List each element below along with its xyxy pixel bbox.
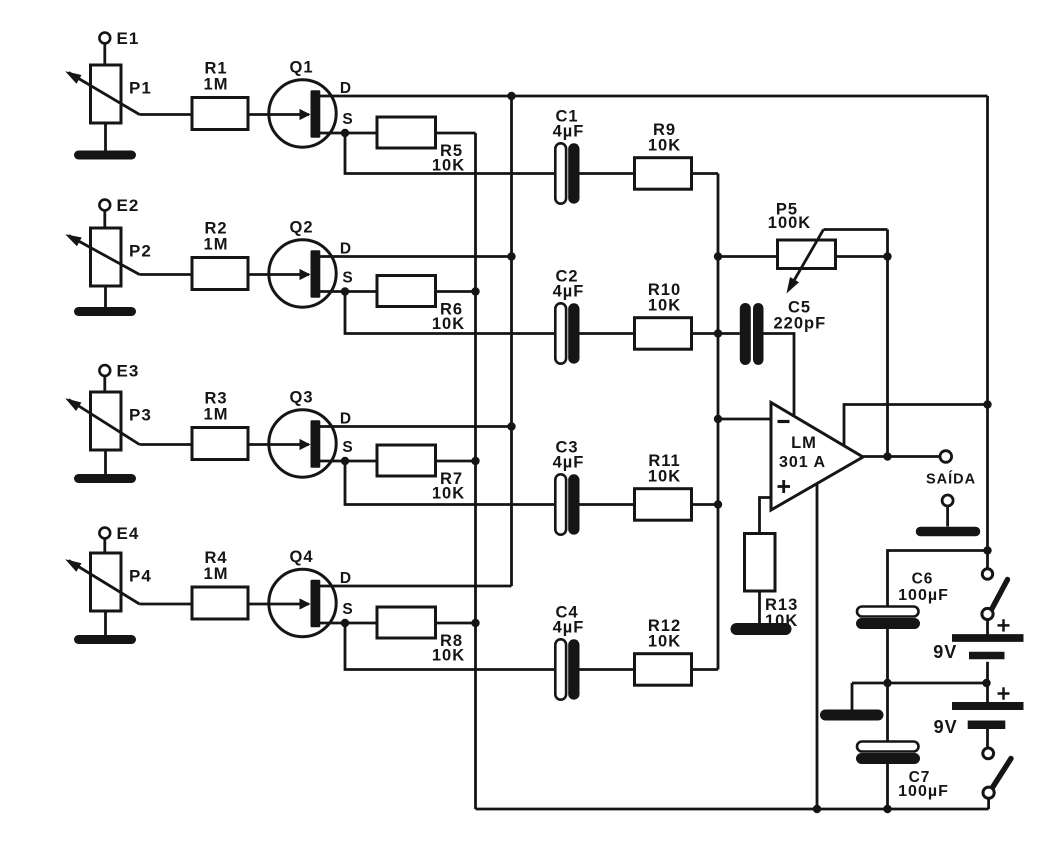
node P5 / summing bus [714, 252, 722, 260]
wire E3 to P3 [103, 376, 106, 392]
svg-text:4µF: 4µF [553, 454, 585, 472]
resistor R1 1M [192, 60, 248, 130]
svg-text:10K: 10K [648, 297, 681, 315]
svg-text:4µF: 4µF [553, 283, 585, 301]
switch S1 [982, 569, 1008, 620]
wire op-amp non-inverting input to R13 [760, 498, 772, 534]
node Q3 drain / drain bus [507, 422, 515, 430]
wire Q3 drain to drain bus [319, 425, 512, 428]
node V+ rail / op-amp supply [983, 400, 991, 408]
wire R7 to V- bus [436, 460, 476, 463]
svg-text:P1: P1 [129, 79, 152, 98]
battery B2 9V [934, 687, 1024, 737]
wire S1 to battery B1 [986, 621, 989, 635]
wire R13 to ground [758, 591, 761, 624]
wire R6 to V- bus [436, 290, 476, 293]
resistor R3 1M [192, 390, 248, 460]
svg-text:D: D [340, 80, 352, 97]
transistor Q4 (JFET) [269, 548, 354, 637]
terminal E3 [99, 362, 139, 381]
node R6 / V- bus [471, 287, 479, 295]
node C6/C7 junction [883, 679, 891, 687]
potentiometer P3 [65, 392, 152, 450]
op-amp U1 LM301A [771, 403, 863, 511]
node V- rail / op-amp supply [813, 805, 821, 813]
node Q2 drain / drain bus [507, 252, 515, 260]
svg-text:10K: 10K [432, 157, 465, 175]
node inverting input / summing bus [714, 415, 722, 423]
ground (P4) [79, 635, 132, 644]
potentiometer P4 [65, 553, 152, 611]
svg-text:10K: 10K [432, 647, 465, 665]
svg-text:Q3: Q3 [289, 389, 313, 407]
node Q3 source [341, 457, 349, 465]
wire C7 to V- rail [886, 764, 889, 809]
node R7 / V- bus [471, 457, 479, 465]
node P5 right terminal [883, 252, 891, 260]
node Q2 source [341, 287, 349, 295]
wire R9 to summing bus [692, 172, 719, 175]
svg-text:10K: 10K [648, 137, 681, 155]
svg-text:10K: 10K [648, 468, 681, 486]
wire Q2 source to R6 [319, 290, 377, 293]
node R10 / summing bus [714, 329, 722, 337]
resistor R5 10K [377, 117, 465, 175]
svg-text:1M: 1M [204, 236, 229, 254]
wire R11 to summing bus [692, 503, 719, 506]
svg-text:4µF: 4µF [553, 123, 585, 141]
wire E2 to P2 [103, 210, 106, 228]
wire R2 to Q2 gate [248, 273, 272, 276]
wire C6 to junction [886, 629, 889, 683]
resistor R6 10K [377, 276, 465, 334]
resistor R10 10K [635, 281, 692, 349]
wire P5 right to feedback [836, 255, 888, 258]
wire R4 to Q4 gate [248, 603, 272, 606]
node Q1 drain / drain bus [507, 92, 515, 100]
svg-text:E3: E3 [117, 362, 140, 381]
svg-text:LM: LM [791, 434, 817, 452]
svg-text:S: S [342, 601, 353, 618]
capacitor C4 4µF [553, 604, 585, 700]
node C7 / V- rail [883, 805, 891, 813]
ground (P2) [79, 307, 132, 316]
wire V- bottom rail [476, 808, 989, 811]
terminal E1 [99, 29, 139, 48]
switch S2 [983, 748, 1011, 798]
node V+ / C6 branch [983, 546, 991, 554]
resistor R7 10K [377, 445, 465, 503]
wire C1 to R9 [580, 172, 635, 175]
resistor R2 1M [192, 220, 248, 290]
svg-text:P3: P3 [129, 406, 152, 425]
wire battery midpoint to supply ground [852, 682, 987, 685]
wire E1 to P1 [103, 43, 106, 65]
node R11 / summing bus [714, 500, 722, 508]
potentiometer P1 [65, 65, 152, 123]
wire B2 to S2 [986, 729, 989, 748]
svg-text:S: S [342, 111, 353, 128]
node Q4 source [341, 619, 349, 627]
svg-text:Q1: Q1 [289, 59, 313, 77]
transistor Q3 (JFET) [269, 389, 354, 478]
resistor R8 10K [377, 607, 465, 665]
wire V- bus (sources R5-R8) [474, 133, 477, 809]
svg-text:E2: E2 [117, 196, 140, 215]
wire C2 to R10 [580, 332, 635, 335]
capacitor C2 4µF [553, 268, 585, 364]
battery B1 9V [933, 619, 1023, 662]
wire R10 to summing bus [692, 332, 719, 335]
capacitor C3 4µF [553, 439, 585, 535]
svg-text:SAÍDA: SAÍDA [926, 471, 976, 488]
svg-text:D: D [340, 411, 352, 428]
svg-text:301 A: 301 A [779, 454, 826, 471]
wire Q4 source to C4 [345, 623, 556, 670]
node op-amp output [883, 452, 891, 460]
capacitor C6 100µF [856, 571, 949, 630]
node Q1 source [341, 129, 349, 137]
capacitor C1 4µF [553, 108, 585, 204]
potentiometer P2 [65, 228, 152, 286]
wire S2 to V- rail [987, 799, 990, 809]
potentiometer P5 100K [768, 201, 836, 294]
svg-text:Q2: Q2 [289, 219, 313, 237]
wire P4 wiper to R4 [140, 603, 193, 606]
svg-text:4µF: 4µF [553, 619, 585, 637]
wire Q4 drain to drain bus [319, 585, 512, 588]
node R8 / V- bus [471, 619, 479, 627]
wire drain bus [510, 96, 513, 586]
wire B1 to B2 [986, 662, 989, 702]
wire P3 to ground [104, 450, 107, 479]
svg-text:C6: C6 [912, 571, 934, 588]
svg-text:S: S [342, 270, 353, 287]
wire Q2 drain to drain bus [319, 255, 512, 258]
resistor R13 10K [745, 534, 799, 631]
wire P2 to ground [104, 286, 107, 312]
wire R12 to summing bus [692, 668, 719, 671]
ground (P1) [79, 151, 132, 160]
wire Q3 source to C3 [345, 461, 556, 505]
wire P5 wiper to feedback [824, 228, 888, 231]
ground (P3) [79, 474, 132, 483]
svg-text:100µF: 100µF [898, 783, 949, 800]
ground (SAIDA jack) [921, 495, 976, 532]
resistor R12 10K [635, 617, 692, 685]
svg-text:1M: 1M [204, 565, 229, 583]
wire P1 wiper to R1 [140, 113, 193, 116]
wire P3 wiper to R3 [140, 443, 193, 446]
wire summing bus [717, 174, 720, 670]
wire op-amp V+ pin to V+ rail [844, 405, 988, 446]
wire R8 to V- bus [436, 622, 476, 625]
wire C5 to op-amp comp pin [764, 334, 795, 416]
wire Q1 drain / V+ top rail [319, 95, 988, 98]
svg-text:220pF: 220pF [774, 315, 827, 333]
ground (supply midpoint) [826, 683, 879, 715]
svg-text:Q4: Q4 [289, 548, 313, 566]
svg-text:100µF: 100µF [898, 587, 949, 604]
svg-text:E1: E1 [117, 29, 140, 48]
wire R5 to V- bus [436, 132, 476, 135]
wire junction to C7 [886, 683, 889, 742]
wire P4 to ground [104, 611, 107, 640]
svg-text:10K: 10K [432, 485, 465, 503]
terminal SAIDA [926, 451, 976, 488]
wire R1 to Q1 gate [248, 113, 272, 116]
svg-text:1M: 1M [204, 76, 229, 94]
svg-text:10K: 10K [648, 633, 681, 651]
wire summing bus to op-amp inverting input [718, 418, 771, 421]
svg-text:P4: P4 [129, 567, 152, 586]
wire P1 to ground [104, 123, 107, 155]
wire V+ rail (right side) [986, 96, 989, 568]
wire R3 to Q3 gate [248, 443, 272, 446]
wire Q4 source to R8 [319, 622, 377, 625]
svg-text:9V: 9V [933, 642, 957, 662]
wire op-amp output to SAIDA [863, 455, 940, 458]
transistor Q2 (JFET) [269, 219, 354, 308]
svg-text:9V: 9V [934, 717, 958, 737]
ground (R13) [737, 623, 786, 635]
resistor R9 10K [635, 121, 692, 189]
terminal E4 [99, 524, 139, 543]
svg-text:D: D [340, 570, 352, 587]
wire E4 to P4 [103, 538, 106, 553]
resistor R4 1M [192, 549, 248, 619]
wire P2 wiper to R2 [140, 273, 193, 276]
wire V+ branch to C6 [888, 551, 988, 608]
svg-text:1M: 1M [204, 406, 229, 424]
svg-text:P2: P2 [129, 242, 152, 261]
capacitor C7 100µF [856, 742, 949, 801]
node battery midpoint [982, 679, 990, 687]
wire feedback (P5 to output) [886, 230, 889, 457]
svg-text:100K: 100K [768, 214, 811, 232]
wire Q1 source to R5 [319, 132, 377, 135]
terminal E2 [99, 196, 139, 215]
capacitor C5 220pF [740, 299, 826, 366]
transistor Q1 (JFET) [269, 59, 354, 148]
svg-text:E4: E4 [117, 524, 140, 543]
wire Q1 source to C1 [345, 133, 556, 174]
wire P5 left to summing bus [718, 255, 778, 258]
wire summing bus to C5 [718, 332, 740, 335]
wire C3 to R11 [580, 503, 635, 506]
wire op-amp V- pin to V- rail [816, 484, 819, 810]
svg-text:D: D [340, 241, 352, 258]
resistor R11 10K [635, 452, 692, 520]
wire C4 to R12 [580, 668, 635, 671]
wire Q2 source to C2 [345, 292, 556, 334]
svg-text:10K: 10K [432, 315, 465, 333]
wire Q3 source to R7 [319, 460, 377, 463]
svg-text:S: S [342, 439, 353, 456]
